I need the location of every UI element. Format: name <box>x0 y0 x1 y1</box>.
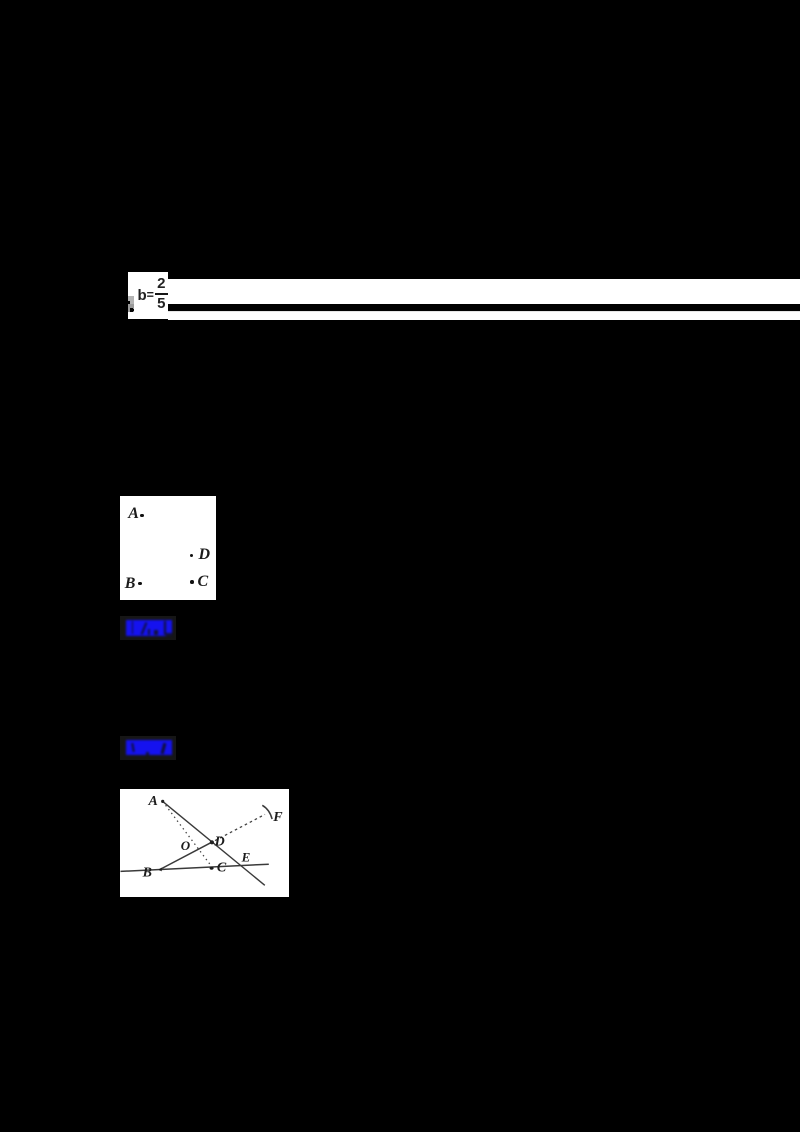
dot right of A <box>140 514 144 518</box>
solid segment B to D <box>159 842 212 870</box>
dashed ray D to F <box>215 814 265 840</box>
geometry diagram white box <box>120 789 289 897</box>
blue label box 1 (analysis tag) <box>120 616 176 639</box>
dot at C <box>210 867 214 870</box>
svg-text:B: B <box>142 866 152 881</box>
svg-text:D: D <box>214 835 225 850</box>
svg-text:E: E <box>241 849 251 864</box>
point label A <box>128 506 139 521</box>
dotted line A to C <box>163 801 213 868</box>
svg-text:A: A <box>148 794 158 809</box>
formula white box (b = 2/5) <box>128 272 168 320</box>
long black rule (page background gap) + lower white strip <box>168 311 800 320</box>
point-set white box with A, D, B, C <box>120 496 216 601</box>
variable b <box>138 289 150 305</box>
svg-text:C: C <box>217 861 227 876</box>
solid line A through D to lower right <box>163 801 265 885</box>
line through B and C (horizontal base line) <box>121 864 269 871</box>
dot at B <box>158 868 161 872</box>
point label B <box>125 576 136 591</box>
dot left of D <box>190 554 194 558</box>
small scan artifact marks left of formula <box>128 296 134 304</box>
dot left of C <box>190 580 194 584</box>
numerator 2 <box>155 277 168 291</box>
dot at D <box>210 840 214 844</box>
denominator 5 <box>155 297 168 311</box>
equals sign <box>147 288 157 302</box>
dot at A <box>161 800 164 803</box>
fraction bar <box>155 293 169 295</box>
point label C <box>198 574 209 589</box>
small arc hook near F <box>262 805 272 819</box>
svg-text:F: F <box>272 810 283 825</box>
blue label box 2 (answer tag) <box>120 736 176 760</box>
white band right of formula box <box>168 279 800 303</box>
svg-text:O: O <box>181 838 191 853</box>
dot right of B <box>138 582 142 586</box>
point label D <box>199 547 211 562</box>
